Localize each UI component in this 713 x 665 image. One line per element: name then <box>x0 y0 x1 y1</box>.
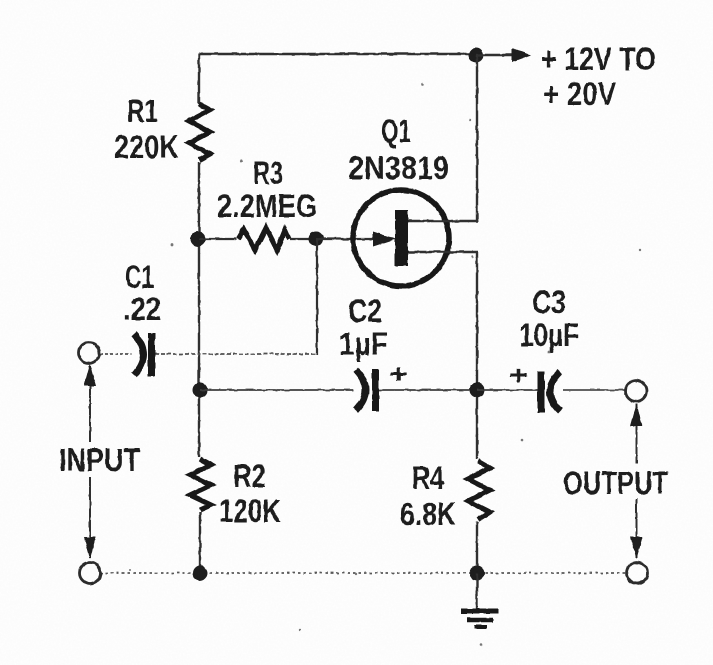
wire right vertical lower <box>476 522 478 573</box>
output dimension arrow <box>631 404 643 559</box>
resistor R1 <box>189 104 210 160</box>
node bottom left junction <box>193 566 208 581</box>
wire R3 right lead <box>290 238 317 240</box>
wire source lead <box>408 251 478 253</box>
node A gate-bias junction <box>191 232 206 247</box>
ground <box>461 611 498 627</box>
resistor R2 <box>190 459 211 510</box>
wire C2 left lead <box>200 389 353 391</box>
wire left vertical upper <box>198 54 200 104</box>
gate arrowhead <box>373 232 396 247</box>
wire ground stub <box>476 573 478 609</box>
wire left vertical middle <box>198 162 200 457</box>
resistor R4 <box>468 461 490 520</box>
node supply junction <box>469 48 484 63</box>
output terminal bottom <box>627 563 648 584</box>
capacitor C2 straight plate <box>372 369 379 411</box>
transistor Q1 channel bar <box>395 210 408 266</box>
wire supply arrow stem <box>476 54 513 56</box>
wire R3 left lead <box>199 238 236 240</box>
wire input to C1 <box>100 353 131 355</box>
wire gate lead <box>316 238 376 240</box>
wire bottom rail <box>100 572 627 574</box>
capacitor C1 curved plate <box>134 334 144 375</box>
capacitor C3 straight plate <box>538 371 545 413</box>
output terminal top <box>626 381 647 402</box>
capacitor C3 curved plate <box>550 372 560 411</box>
node B gate junction <box>309 232 324 247</box>
transistor Q1 circle <box>353 190 449 286</box>
input dimension arrow <box>84 364 96 559</box>
supply arrowhead <box>512 48 531 62</box>
wire C1 to gate riser <box>155 353 317 355</box>
wire C2 right lead <box>379 389 477 391</box>
capacitor C2 curved plate <box>356 370 366 410</box>
wire drain lead <box>408 220 478 222</box>
node C source-row left junction <box>193 383 208 398</box>
wire gate riser vertical <box>316 239 318 355</box>
resistor R3 <box>238 228 289 250</box>
node bottom right junction <box>470 566 485 581</box>
capacitor C1 straight plate <box>148 333 155 376</box>
node D output-row junction <box>470 383 485 398</box>
wire right vertical middle <box>476 252 478 459</box>
input terminal top <box>79 343 100 364</box>
wire C3 left lead <box>477 389 538 391</box>
wire C3 to output <box>563 389 626 391</box>
wire left vertical lower <box>199 512 201 573</box>
wire top rail <box>199 53 476 55</box>
input terminal bottom <box>80 563 101 584</box>
wire right vertical upper <box>476 55 478 221</box>
